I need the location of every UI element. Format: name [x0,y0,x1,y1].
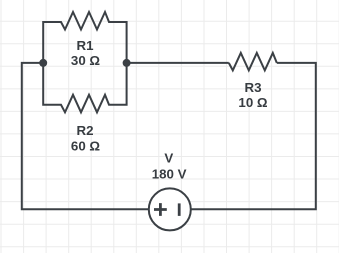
resistor R3 [229,53,277,71]
resistor R2 (bottom branch with leads) [43,63,126,112]
node B (right junction dot) [123,59,131,67]
svg-text:30 Ω: 30 Ω [71,53,100,68]
wire: left loop from node A down to voltage source + terminal [22,63,149,209]
node A (left junction dot) [39,59,47,67]
svg-text:60 Ω: 60 Ω [71,138,100,153]
voltage source V (circle with + and | terminals) [149,188,191,230]
wire: resistor R3 to right loop down to voltage source - terminal [191,63,316,209]
svg-text:V: V [164,151,173,166]
resistor R1 (top branch with leads) [43,12,126,63]
svg-text:R1: R1 [77,38,95,53]
wire: node B to resistor R3 [127,62,229,64]
svg-text:10 Ω: 10 Ω [238,95,267,110]
svg-text:180 V: 180 V [152,166,187,181]
svg-text:R2: R2 [77,123,94,138]
svg-text:R3: R3 [245,80,262,95]
